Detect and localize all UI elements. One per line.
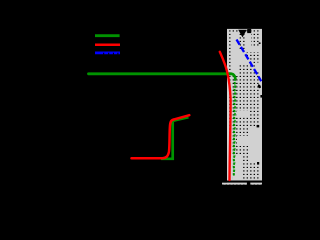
legend blue dash notch 1 [103,53,104,55]
red actual response roll-off [220,52,231,180]
plain patch below-right of blue asymptote [255,63,261,71]
plain patch top-middle-right [251,46,259,52]
hatch dots on sliver extension [222,183,227,185]
right-edge tick mark c [257,125,260,127]
green ideal response curve vertical drop [234,79,236,177]
right-edge tick mark e [259,42,261,44]
green step curve (lower plot) [161,117,189,159]
plain patch upper-left [232,33,238,76]
plain right margin strip [260,29,262,181]
plain patch right [250,146,262,163]
shaded stopband region [227,29,262,185]
bottom tick [247,181,250,186]
legend blue dash notch 4 [117,53,118,55]
x-axis line crossing box [220,181,266,183]
legend blue dash notch 3 [113,53,114,55]
legend sample line blue dashed [95,52,120,55]
right-edge tick mark d [257,162,259,165]
hatch dots over stopband [227,29,262,185]
plain patch right-mid [249,127,263,146]
plain patch mid-lower band [237,136,262,146]
right-edge tick mark b [260,95,262,98]
plain patch mid band [237,111,249,117]
blue asymptote dashed line [237,40,262,82]
plain patch bottom-left [233,154,243,179]
red sigmoid curve (lower plot) [132,115,190,158]
right-edge tick mark a [258,84,261,88]
green ideal response curve flat part [89,74,236,79]
arrow head marker [238,30,247,38]
plain patch top-middle [246,34,251,53]
arrow stem notch [247,29,251,33]
plain patch left of blue asymptote [236,50,251,64]
legend sample line green [95,34,120,37]
below-axis hatch sliver left extension [222,183,227,185]
legend blue dash notch 2 [108,53,109,55]
legend sample line red [95,43,120,46]
